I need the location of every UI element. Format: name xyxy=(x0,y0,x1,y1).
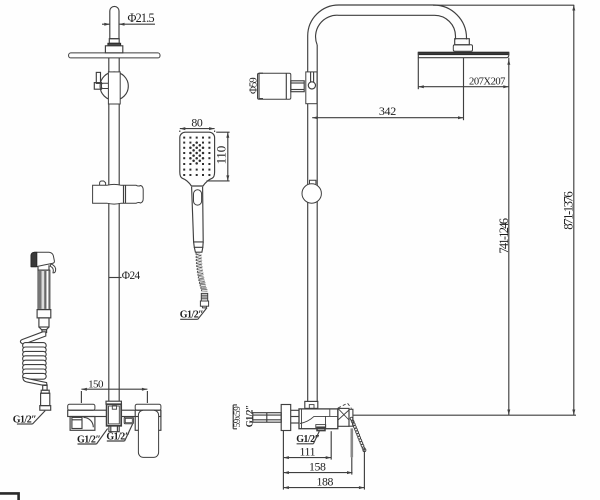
handle block side view xyxy=(338,408,349,426)
riser pipe right view xyxy=(307,36,309,401)
bidet trigger xyxy=(50,264,56,273)
bidet lower collar xyxy=(37,310,51,318)
flexible hose ribs xyxy=(196,253,202,255)
svg-text:741-1246: 741-1246 xyxy=(497,218,511,253)
dimension 188 xyxy=(283,487,364,489)
pipe between disc and diverter xyxy=(108,58,110,72)
svg-text:158: 158 xyxy=(309,460,326,474)
dimension 342 xyxy=(312,117,463,119)
dark seal ring xyxy=(108,43,121,45)
wall escutcheon plate xyxy=(281,405,291,431)
svg-text:110: 110 xyxy=(214,146,229,164)
dimension 871-1376 xyxy=(573,5,575,415)
bidet sprayer head xyxy=(32,252,55,267)
svg-text:80: 80 xyxy=(191,116,202,130)
phi59 wall supply cylinder xyxy=(258,73,291,99)
riser bottom flange xyxy=(305,401,318,408)
svg-text:207X207: 207X207 xyxy=(469,76,505,87)
junction screw pin xyxy=(310,72,312,82)
svg-text:Φ24: Φ24 xyxy=(122,270,141,282)
handle stem bar xyxy=(349,409,353,426)
svg-text:150: 150 xyxy=(88,378,104,390)
svg-text:871-1376: 871-1376 xyxy=(562,191,576,230)
valve bottom hose connector xyxy=(109,426,119,432)
handle lever hatched xyxy=(350,417,366,452)
riser slider ring circle xyxy=(302,184,321,203)
holder clamp double lines xyxy=(123,185,125,203)
svg-text:Φ21.5: Φ21.5 xyxy=(128,11,155,25)
slider ring knob xyxy=(310,180,316,184)
gooseneck inner curve xyxy=(316,15,456,45)
left view: top inlet stub pipe xyxy=(110,6,119,38)
bidet neck xyxy=(38,265,49,270)
hand shower face plate xyxy=(180,132,215,186)
bidet handle barrel xyxy=(38,270,50,310)
hose outlet under valve body xyxy=(316,425,326,428)
extension lines lower dims xyxy=(282,431,284,490)
handle mode button xyxy=(194,190,202,205)
svg-text:111: 111 xyxy=(299,445,315,459)
supply connector xyxy=(291,81,304,92)
faucet right backplate xyxy=(135,410,161,430)
bidet hose connector xyxy=(43,385,47,390)
valve top small square xyxy=(112,406,116,410)
bidet coiled hose xyxy=(20,332,47,386)
hand shower dimension 80 xyxy=(180,128,215,130)
center valve inner square xyxy=(109,406,120,424)
faucet main bar xyxy=(68,410,161,416)
spout lever (rounded) xyxy=(138,410,158,457)
pipe below diverter xyxy=(108,104,110,185)
main pipe down to faucet xyxy=(108,203,110,401)
valve inlet nipples xyxy=(291,409,299,411)
bidet hose tip xyxy=(42,330,47,333)
dimension 110 xyxy=(227,132,229,181)
extension line faucet to right dims xyxy=(353,414,576,416)
diverter housing block xyxy=(108,72,120,104)
phi59 dimension bracket xyxy=(258,73,260,98)
faucet right wall block xyxy=(135,404,161,410)
59x59 dimension bracket xyxy=(232,405,234,429)
spray nozzle grid xyxy=(183,137,185,139)
handle cone fitting xyxy=(194,242,204,247)
inlet collar xyxy=(109,39,119,44)
dimension 741-1246 xyxy=(508,58,510,415)
valve body side view xyxy=(299,409,338,429)
dimension 158 xyxy=(283,472,352,474)
shower head disc (side view) xyxy=(69,53,160,58)
handle phantom dashed (raised position) xyxy=(338,403,352,408)
riser junction block xyxy=(306,72,317,104)
slider holder knob xyxy=(100,181,106,186)
rain shower head slab xyxy=(418,52,509,54)
top extension line to 871 dim xyxy=(433,4,574,6)
hand shower handle xyxy=(192,187,204,242)
center valve outer square xyxy=(107,404,122,426)
gooseneck nut xyxy=(455,39,470,45)
dimension 111 xyxy=(283,457,331,459)
junction circle xyxy=(308,82,315,89)
top fitting block xyxy=(105,46,122,53)
right small fitting xyxy=(124,417,133,424)
riser-to-valve flange xyxy=(106,401,121,404)
svg-text:59x59: 59x59 xyxy=(232,406,242,428)
gooseneck outer curve xyxy=(308,5,467,40)
wall inlet pipe side view xyxy=(253,413,281,423)
diverter circle xyxy=(100,72,128,100)
hose nut xyxy=(200,293,208,308)
svg-text:188: 188 xyxy=(317,475,334,489)
faucet left lower box xyxy=(70,417,95,431)
faucet left wall block xyxy=(68,404,95,410)
diverter handle knob xyxy=(96,72,100,83)
dimension 150 xyxy=(81,388,147,390)
corner frame box bottom-left xyxy=(0,493,19,500)
svg-text:Φ59: Φ59 xyxy=(247,77,259,94)
bidet head dark face xyxy=(31,252,37,266)
svg-text:342: 342 xyxy=(379,104,396,118)
dimension phi21.5 leader with arrows xyxy=(102,23,110,25)
head center extension line xyxy=(463,58,465,120)
dimension 207X207 xyxy=(417,58,419,89)
gooseneck flange xyxy=(453,45,472,51)
slider holder body xyxy=(93,184,144,204)
phi24 tick and label xyxy=(109,277,122,279)
